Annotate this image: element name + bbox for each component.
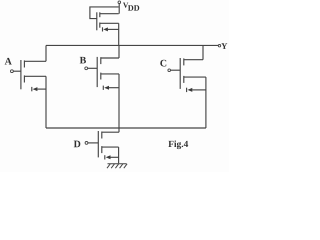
wire A drain to Y rail	[45, 45, 47, 61]
VDD terminal	[118, 1, 121, 4]
wire B drain to Y rail	[118, 45, 120, 58]
channel source segment D	[101, 146, 103, 153]
bulk arrow B	[104, 86, 109, 90]
channel drain segment B	[100, 57, 102, 64]
label C	[160, 60, 166, 67]
bulk arrow C	[188, 88, 193, 92]
gate bar A	[20, 60, 22, 89]
transistor D	[74, 131, 119, 163]
bulk arrow D	[106, 155, 111, 159]
drain lead A	[24, 60, 46, 62]
drain lead D	[102, 131, 119, 133]
source lead B	[101, 73, 119, 75]
bulk tail wire B	[109, 87, 119, 89]
wire B source through bottom rail to D drain	[118, 74, 120, 132]
bulk tail wire	[108, 28, 119, 30]
bulk tick B	[102, 86, 104, 90]
gate bar	[96, 12, 98, 30]
input terminal B	[85, 67, 88, 70]
wire load source down to Y rail	[118, 23, 120, 45]
drain lead B	[101, 57, 119, 59]
channel source segment	[99, 23, 101, 28]
bulk tail wire C	[192, 89, 206, 91]
bulk tick	[102, 27, 104, 31]
gate lead D	[88, 142, 98, 144]
gate bar D	[97, 131, 99, 157]
gate lead B	[88, 67, 98, 69]
bulk arrow	[103, 27, 108, 31]
node Y rail	[46, 44, 218, 46]
drain lead	[100, 13, 119, 15]
channel drain segment A	[23, 60, 25, 67]
VDD label	[123, 3, 128, 8]
label A	[5, 58, 12, 65]
output terminal Y circle	[218, 45, 220, 47]
gate loop wire top	[90, 7, 119, 19]
channel source segment C	[183, 76, 185, 83]
channel source segment A	[23, 75, 25, 82]
bulk tick A	[31, 87, 33, 91]
source lead D	[102, 146, 119, 148]
channel drain segment	[99, 12, 101, 17]
channel drain segment C	[183, 58, 185, 65]
bulk tail wire D	[110, 156, 118, 158]
label D	[74, 141, 81, 148]
bulk tail wire A	[37, 88, 46, 90]
node N bottom rail	[46, 127, 206, 129]
source lead	[100, 22, 119, 24]
label B	[80, 57, 86, 64]
load transistor Q1 (diode-connected, gate tied to drain)	[90, 7, 119, 46]
bulk arrow A	[33, 87, 38, 91]
wire VDD to load drain	[118, 4, 120, 14]
drain lead C	[184, 59, 203, 61]
channel drain segment D	[101, 132, 103, 139]
gate lead C	[171, 69, 181, 71]
gate lead A	[13, 70, 21, 72]
bulk tick C	[186, 88, 188, 92]
wire C source to bottom rail	[205, 77, 207, 128]
input terminal C	[168, 69, 171, 72]
input terminal D	[85, 142, 88, 145]
source lead C	[184, 76, 206, 78]
wire D source down to ground	[118, 147, 120, 163]
bulk tick D	[104, 155, 106, 159]
source lead A	[24, 75, 46, 77]
transistor B	[80, 45, 119, 132]
gate bar C	[179, 58, 181, 89]
wire A source to bottom rail	[45, 76, 47, 128]
channel source segment B	[100, 73, 102, 80]
transistor A	[5, 45, 46, 128]
transistor C	[160, 45, 206, 128]
label Y	[221, 43, 227, 49]
wire C drain to Y rail	[202, 45, 204, 59]
gate bar B	[96, 57, 98, 87]
caption Fig.4	[168, 140, 188, 149]
ground	[107, 164, 127, 168]
input terminal A	[11, 70, 14, 73]
